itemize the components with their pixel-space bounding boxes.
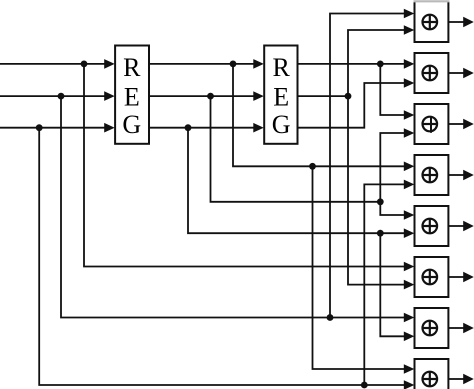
xor gate U5 (415, 206, 449, 246)
arrow into U1 pin a (404, 9, 415, 19)
register REG1 (115, 46, 149, 144)
wire output v7 (448, 327, 464, 329)
arrow output v1 (463, 17, 474, 27)
xor gate U1 (414, 1, 450, 42)
wire s1_3 down and right to XOR U5 input b (188, 128, 405, 234)
wire REG1 out3 to REG2 (149, 127, 254, 129)
wire u1 tap down and right to XOR U6 input a (84, 64, 405, 267)
arrow into REG1 pin1 (104, 59, 115, 69)
arrow into U2 pin b (404, 78, 415, 88)
arrow into U3 pin b (404, 128, 415, 138)
node s2_2 junction (345, 93, 352, 100)
arrow into U1 pin b (404, 25, 415, 35)
svg-text:R: R (123, 53, 141, 82)
node s1_1 tap (230, 61, 237, 68)
arrow into U2 pin a (404, 59, 415, 69)
wire u3 tap down and right to XOR U8 input b (39, 128, 404, 385)
arrow into U8 pin a (404, 364, 415, 374)
arrow into U3 pin a (404, 110, 415, 120)
xor gate U7 (415, 308, 449, 348)
arrow output v5 (463, 221, 474, 231)
wire s2_2 branch up to XOR U1 input b (348, 30, 405, 96)
svg-text:E: E (124, 82, 140, 111)
wire REG1 out1 to REG2 (149, 63, 254, 65)
arrow into REG2 pin3 (253, 123, 263, 133)
svg-text:R: R (273, 53, 291, 82)
arrow output v4 (463, 170, 474, 180)
wire u3 branch up to XOR U4 input b (364, 184, 404, 385)
arrow into U6 pin b (404, 280, 415, 290)
wire s1_2 branch up to XOR U3 input b (380, 133, 404, 202)
wire output v1 (448, 21, 464, 23)
wire output v4 (448, 174, 464, 176)
arrow output v8 (463, 374, 474, 384)
arrow into U5 pin a (404, 210, 415, 220)
xor gate U3 (415, 104, 449, 144)
node s2_1 branch junction (377, 61, 384, 68)
wire output v8 (448, 378, 464, 380)
node u2 tap (58, 93, 65, 100)
wire s1_2 down and right to junction (211, 96, 381, 202)
arrow into REG2 pin2 (253, 91, 263, 101)
arrow into REG1 pin2 (104, 91, 115, 101)
node u1 tap (81, 61, 88, 68)
wire input u1 (0, 63, 105, 65)
arrow output v2 (463, 68, 474, 78)
arrow into REG1 pin3 (104, 123, 115, 133)
register REG2 (264, 46, 297, 144)
svg-text:G: G (272, 110, 291, 139)
wire s1_2 branch down to XOR U5 input a (380, 202, 404, 215)
wire s2_1 branch down to XOR U3 input a (380, 64, 404, 115)
wire input u2 (0, 95, 105, 97)
arrow into REG2 pin1 (253, 59, 263, 69)
wire output v3 (448, 123, 464, 125)
arrow into U7 pin a (404, 313, 415, 323)
arrow into U4 pin a (404, 162, 415, 172)
xor gate U4 (415, 155, 449, 195)
wire s1_3 branch down to XOR U7 input b (380, 233, 404, 336)
arrow into U7 pin b (404, 332, 415, 342)
svg-text:E: E (273, 82, 289, 111)
node s1_3 branch junction (377, 230, 384, 237)
xor gate U8 (415, 359, 449, 389)
wire s1_1 branch down to XOR U8 input a (313, 166, 405, 369)
arrow into U6 pin a (404, 262, 415, 272)
arrow into U8 pin b (404, 380, 415, 389)
node s1_1 branch junction (309, 163, 316, 170)
wire output v6 (448, 276, 464, 278)
xor gate U2 (415, 53, 449, 93)
node u3 tap (36, 124, 43, 131)
arrow into U4 pin b (404, 180, 415, 190)
wire input u3 (0, 127, 105, 129)
arrow output v3 (463, 119, 474, 129)
svg-text:G: G (122, 110, 141, 139)
wire s2_1 from REG2 to XOR U2 input a (298, 63, 405, 65)
node u3 branch junction (361, 382, 368, 389)
arrow into U5 pin b (404, 228, 415, 238)
xor gate U6 (415, 257, 449, 297)
node u2 branch junction (327, 314, 334, 321)
node s1_3 tap (185, 124, 192, 131)
wire u2 branch up to XOR U1 input a (330, 14, 405, 318)
wire output v5 (448, 225, 464, 227)
arrow output v6 (463, 272, 474, 282)
wire s2_2 branch down to XOR U6 input b (348, 96, 405, 285)
wire u2 tap down and right to XOR U7 input a (61, 96, 405, 317)
arrow output v7 (463, 323, 474, 333)
wire s1_1 down and right to XOR U4 input a (233, 64, 405, 166)
wire REG1 out2 to REG2 (149, 95, 254, 97)
node s1_2 tap (207, 93, 214, 100)
node s1_2 branch junction (377, 198, 384, 205)
wire output v2 (448, 72, 464, 74)
wire s2_3 from REG2 up to XOR U2 input b (298, 83, 405, 128)
wire s2_2 from REG2 to junction (298, 95, 349, 97)
